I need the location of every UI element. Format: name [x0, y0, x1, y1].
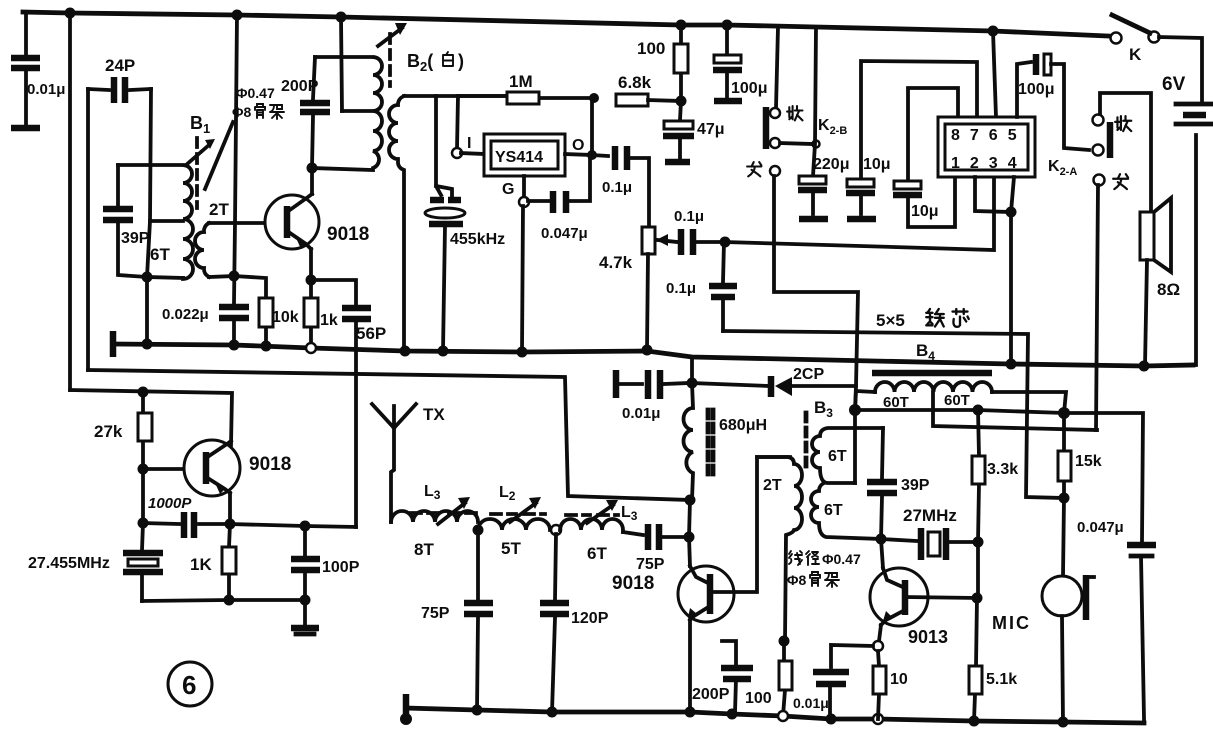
capacitor 200P PA	[692, 641, 753, 713]
svg-text:0.01μ: 0.01μ	[622, 405, 660, 422]
capacitor 100P	[291, 526, 360, 600]
capacitor 47u electrolytic	[663, 101, 725, 162]
node collector junction 9013	[972, 593, 983, 604]
node rail x522	[517, 347, 528, 358]
wire 2T top to transistor base	[209, 221, 283, 225]
wire supply line y411	[855, 410, 1143, 541]
svg-text:75P: 75P	[421, 605, 450, 622]
capacitor 39P	[103, 165, 150, 277]
wire B1 junction down to ground rail	[145, 277, 149, 344]
svg-text:I: I	[467, 135, 471, 152]
wire supply drop x237	[234, 15, 237, 303]
wire ground line tap to RF node	[690, 357, 694, 383]
wire B2 secondary to 1M and I pin	[404, 94, 507, 98]
svg-text:15k: 15k	[1075, 453, 1102, 470]
node crystal right junction	[973, 537, 984, 548]
svg-text:680μH: 680μH	[719, 417, 767, 434]
svg-text:1000P: 1000P	[148, 495, 192, 512]
wire I pin drop	[457, 96, 458, 149]
wire emitter Q2 to 1000P line	[228, 493, 232, 524]
wire base node riser	[689, 500, 690, 566]
svg-text:0.1μ: 0.1μ	[602, 179, 632, 196]
transformer B2 primary winding	[312, 57, 382, 170]
wire rail to S765 pin6	[993, 31, 996, 117]
svg-text:4.7k: 4.7k	[599, 253, 633, 272]
switch K2-B common contact	[770, 138, 820, 148]
svg-text:9018: 9018	[327, 224, 369, 245]
label wire gauge line1	[789, 551, 861, 567]
node B3 supply junction	[849, 404, 861, 416]
battery 6V	[1159, 37, 1212, 365]
node 15k B4 junction	[1058, 407, 1070, 419]
inductor L3 6T output	[560, 500, 638, 563]
svg-text:10: 10	[890, 671, 908, 688]
svg-text:0.047μ: 0.047μ	[541, 225, 588, 242]
wire lower-left supply branch	[70, 390, 232, 445]
node rail x443	[438, 346, 449, 357]
capacitor 75P shunt	[421, 530, 493, 710]
switch K2-A transmit contact	[1094, 174, 1129, 189]
wire audio line y332 to transmitter	[723, 331, 1064, 498]
svg-text:8Ω: 8Ω	[1157, 280, 1180, 299]
svg-text:6V: 6V	[1162, 74, 1186, 95]
svg-text:Φ0.47: Φ0.47	[822, 551, 861, 567]
capacitor 0.01u emitter bypass	[793, 645, 873, 719]
label B3	[814, 398, 833, 420]
resistor 100 PA	[745, 641, 792, 716]
node 1k bottom	[224, 595, 235, 606]
ground stub below 100P	[291, 600, 319, 634]
svg-text:YS414: YS414	[495, 149, 543, 166]
capacitor 100u electrolytic top	[713, 25, 767, 101]
switch K2-A pole bar	[1107, 122, 1114, 158]
node speaker ground junction	[1139, 361, 1150, 372]
wire emitter 9013 to ring	[879, 625, 881, 641]
resistor 1k emitter Q1	[304, 280, 338, 344]
node rail ring x783	[778, 711, 788, 721]
label wire gauge line2	[787, 572, 839, 588]
svg-text:10k: 10k	[272, 309, 299, 326]
node rail ring x878	[873, 714, 883, 724]
svg-text:5×5: 5×5	[876, 311, 905, 330]
inductor 680uH choke	[684, 383, 768, 500]
wire top supply rail	[23, 12, 1108, 36]
wire S765 pin8 to 10u second	[908, 88, 958, 180]
capacitor 24P	[88, 56, 151, 103]
node 2T bottom junction	[779, 636, 790, 647]
svg-text:100μ: 100μ	[1018, 81, 1054, 98]
svg-text:27MHz: 27MHz	[903, 506, 957, 525]
svg-text:1k: 1k	[320, 312, 338, 329]
svg-text:0.01μ: 0.01μ	[27, 81, 65, 98]
inductor 2T coupling winding	[195, 200, 234, 277]
capacitor 220u electrolytic	[798, 156, 849, 219]
node crystal top junction	[138, 518, 149, 529]
node rail ring x311	[306, 343, 316, 353]
node 100P bottom	[300, 595, 311, 606]
pin O output YS414	[565, 137, 592, 155]
node base junction Q2	[138, 464, 149, 475]
wire collector column 9013	[976, 542, 980, 598]
svg-text:8765: 8765	[951, 127, 1027, 144]
wire long RF line 24P branch to PA base	[88, 370, 690, 500]
capacitor 56P	[311, 280, 386, 527]
node PA base upper junction	[685, 495, 696, 506]
svg-text:2T: 2T	[209, 200, 229, 219]
IC U2 S765 amplifier	[938, 117, 1035, 177]
transformer B2 secondary winding	[389, 96, 404, 351]
node rail x732	[727, 709, 738, 720]
node top rail junction x341	[336, 12, 347, 23]
wire base drop to crystal	[141, 469, 145, 523]
resistor 6.8k	[616, 73, 681, 106]
svg-text:60T: 60T	[944, 392, 970, 409]
node top rail junction x727	[722, 20, 733, 31]
svg-text:10μ: 10μ	[863, 156, 891, 173]
resistor 1M	[458, 72, 594, 104]
node B1 bottom junction	[142, 272, 153, 283]
terminal bottom rail left end	[400, 694, 412, 725]
svg-text:6: 6	[182, 670, 196, 700]
switch K2-B pole bar	[763, 107, 770, 149]
wire emitter Q3 to rail	[688, 620, 692, 712]
node 1M 6.8k junction	[589, 93, 599, 103]
transformer B3 secondary 6T lower	[811, 483, 881, 539]
node crystal line left junction	[876, 534, 887, 545]
node antenna RF junction	[687, 378, 698, 389]
capacitor 10u second electrolytic	[893, 177, 955, 227]
resistor 1k oscillator	[190, 524, 236, 600]
node rail x647	[642, 345, 653, 356]
microphone MIC	[992, 498, 1094, 722]
resistor 5.1k	[969, 598, 1017, 721]
transformer B4 core 5x5	[872, 309, 992, 373]
inductor 2T PA tank	[757, 457, 802, 641]
svg-text:8T: 8T	[414, 540, 434, 559]
wire left vertical x71 to lower-left oscillator	[68, 13, 72, 390]
crystal 27MHz	[881, 506, 978, 560]
node B2 200P collector junction	[307, 163, 318, 174]
node emitter junction y524	[225, 519, 236, 530]
node rail x1063	[1058, 717, 1069, 728]
svg-text:9018: 9018	[612, 573, 654, 594]
switch K2-B transmit contact	[747, 162, 780, 176]
node rail x477	[472, 705, 483, 716]
node 100 6.8k 47u junction	[676, 96, 687, 107]
node emitter ring	[873, 641, 883, 651]
pin G ground YS414	[502, 176, 529, 352]
svg-text:27k: 27k	[94, 422, 123, 441]
wire S765 pin4 to ground line	[1011, 177, 1014, 364]
svg-text:1234: 1234	[951, 155, 1027, 172]
inductor L2 5T	[478, 484, 550, 558]
diode 2CP	[692, 366, 856, 397]
svg-text:100: 100	[745, 690, 772, 707]
svg-text:9013: 9013	[908, 627, 948, 647]
svg-text:2T: 2T	[763, 477, 782, 494]
switch K2-B receive contact	[770, 27, 803, 120]
capacitor 10u first electrolytic	[846, 156, 891, 219]
node top rail junction x993	[988, 26, 999, 37]
wire collector Q1 to B2/200P node	[310, 168, 314, 194]
transformer B3 secondary 6T upper	[812, 428, 883, 483]
capacitor 0.047u transmit	[1077, 519, 1156, 723]
wire emitter Q1 down	[309, 249, 313, 280]
core B1 dashed line with arrow	[186, 138, 215, 208]
filter 455kHz ceramic	[425, 186, 505, 351]
transformer B4 winding 60T+60T	[855, 382, 1097, 430]
svg-text:6T: 6T	[828, 448, 847, 465]
wire 24P left branch x88	[86, 89, 90, 370]
node audio junction x725	[720, 237, 731, 248]
svg-text:100μ: 100μ	[731, 80, 767, 97]
svg-text:200P: 200P	[281, 78, 319, 95]
wire oscillator bottom	[142, 600, 305, 601]
svg-text:0.022μ: 0.022μ	[162, 306, 209, 323]
wire collector Q3 riser	[710, 457, 790, 592]
transformer B1 coil 6T with tap	[118, 165, 193, 279]
svg-text:6T: 6T	[587, 544, 607, 563]
inductor L3 8T	[391, 483, 478, 559]
svg-text:0.1μ: 0.1μ	[674, 208, 704, 225]
svg-text:3.3k: 3.3k	[987, 461, 1018, 478]
svg-text:56P: 56P	[356, 324, 386, 343]
node rail x552	[547, 707, 558, 718]
svg-text:Φ8: Φ8	[787, 572, 806, 588]
svg-text:0.01μ: 0.01μ	[793, 695, 829, 711]
svg-text:220μ: 220μ	[813, 156, 849, 173]
pin I input YS414	[452, 135, 484, 158]
svg-text:47μ: 47μ	[697, 121, 725, 138]
svg-text:5T: 5T	[501, 539, 521, 558]
label circled 6	[168, 662, 212, 706]
svg-text:24P: 24P	[105, 56, 135, 75]
node rail x234	[229, 340, 240, 351]
capacitor 0.01u antenna coupling	[616, 370, 688, 422]
core B3 dashed	[804, 413, 809, 473]
resistor 100	[637, 25, 688, 101]
node O pin junction	[587, 150, 597, 160]
svg-text:MIC: MIC	[992, 613, 1031, 633]
svg-text:200P: 200P	[692, 686, 730, 703]
resistor 10 emitter	[873, 651, 908, 719]
wire audio line to S765 pin3	[725, 177, 994, 250]
resistor 15k	[1058, 413, 1102, 498]
wire drop to 455kHz filter	[436, 96, 441, 195]
capacitor 0.01u top-left	[11, 13, 65, 128]
switch K power	[1111, 15, 1160, 64]
svg-text:6T: 6T	[824, 502, 843, 519]
transistor Q2 9018 crystal oscillator	[143, 440, 291, 496]
capacitor 0.1u first coupling	[592, 146, 649, 227]
svg-text:100P: 100P	[322, 559, 360, 576]
svg-text:Φ0.47: Φ0.47	[236, 85, 275, 101]
wire 24P right branch x150 to B1 tap	[147, 89, 151, 277]
node emitter junction	[306, 275, 317, 286]
svg-text:75P: 75P	[636, 556, 665, 573]
node rail x266	[261, 341, 272, 352]
capacitor 0.1u third to B4 line	[666, 242, 737, 331]
capacitor 39P tank	[867, 428, 930, 539]
switch K2-A receive contact	[1093, 93, 1152, 212]
speaker 8 ohm	[1140, 198, 1180, 366]
node 100P top junction	[300, 521, 311, 532]
svg-text:1M: 1M	[509, 72, 533, 91]
svg-text:TX: TX	[423, 405, 445, 424]
node PA base junction	[684, 532, 695, 543]
label phi0.47 phi8 leader	[205, 85, 284, 189]
node 3.3k top junction	[973, 405, 984, 416]
svg-text:9018: 9018	[249, 454, 291, 475]
transistor Q4 9013 modulator	[870, 539, 977, 647]
node L3 junction	[473, 525, 484, 536]
svg-text:K: K	[1129, 45, 1142, 64]
node rail x831	[826, 714, 837, 725]
wire K2-A transmit drop to B4 tap line	[1096, 185, 1098, 430]
resistor 10k	[234, 276, 299, 346]
svg-text:O: O	[572, 137, 584, 154]
wire B3 tap column	[853, 410, 857, 483]
wire 1000P line to 100P and 56P	[230, 524, 356, 527]
wire supply drop x342 to B2 tap	[341, 17, 342, 111]
node L2 ring junction	[551, 525, 561, 535]
svg-text:10μ: 10μ	[911, 203, 939, 220]
wire bottom rail	[406, 708, 1144, 723]
node 2T bottom junction	[229, 271, 240, 282]
svg-text:39P: 39P	[901, 477, 930, 494]
label K2-A	[1048, 158, 1077, 178]
transistor Q3 9018 PA	[612, 566, 734, 622]
node top rail junction x681	[676, 20, 687, 31]
capacitor 200P	[281, 57, 330, 168]
switch K2-A common contact	[1093, 145, 1104, 156]
svg-text:G: G	[502, 181, 514, 198]
svg-text:39P: 39P	[121, 230, 150, 247]
capacitor 0.022u	[162, 306, 249, 345]
node rail x690	[685, 707, 696, 718]
crystal 27.455MHz	[28, 523, 163, 601]
terminal ground rail left end	[110, 331, 117, 357]
capacitor 0.047u YS414	[528, 155, 590, 242]
label B2 (bai)	[407, 51, 464, 74]
capacitor 0.1u second coupling	[674, 208, 725, 255]
IC U1 YS414	[484, 134, 565, 176]
svg-text:120P: 120P	[571, 610, 609, 627]
capacitor 75P series	[623, 524, 689, 573]
node rail x974	[969, 716, 980, 727]
core B2 dashed with arrow	[378, 23, 407, 86]
wire K2-B supply drop	[813, 27, 816, 176]
svg-text:1K: 1K	[190, 555, 212, 574]
node pin4 junction	[1006, 207, 1017, 218]
wire O to 1M-6.8k junction	[590, 98, 594, 155]
node rail x405	[400, 346, 411, 357]
wire S765 pin7 to 10u	[861, 61, 977, 178]
capacitor 1000P	[143, 495, 230, 538]
svg-text:100: 100	[637, 39, 665, 58]
potentiometer 4.7k volume	[599, 227, 677, 350]
label K2-B	[818, 117, 847, 137]
node rail x147	[142, 339, 153, 350]
node mic bias junction	[1059, 493, 1070, 504]
node pin4 ground junction	[1006, 359, 1017, 370]
label B1	[190, 113, 210, 136]
wire ground bus rail	[113, 344, 1193, 366]
svg-text:6T: 6T	[150, 245, 170, 264]
svg-text:0.1μ: 0.1μ	[666, 280, 696, 297]
svg-text:0.047μ: 0.047μ	[1077, 519, 1124, 536]
capacitor 120P	[540, 534, 609, 712]
node top rail junction x70	[65, 8, 76, 19]
antenna TX	[372, 404, 445, 522]
node 27k top junction	[138, 387, 149, 398]
node top rail junction x237	[232, 10, 243, 21]
transistor Q1 9018 RX oscillator	[265, 194, 369, 249]
svg-text:6.8k: 6.8k	[618, 73, 652, 92]
resistor 27k	[94, 392, 152, 469]
svg-text:27.455MHz: 27.455MHz	[28, 555, 110, 572]
wire K2-B transmit to B3 node	[774, 176, 858, 410]
svg-text:5.1k: 5.1k	[986, 671, 1017, 688]
resistor 3.3k	[972, 410, 1018, 542]
capacitor 100u to K2-A	[1017, 54, 1089, 150]
wire S765 pin2 to pin4 node	[975, 177, 1011, 212]
svg-text:): )	[458, 51, 464, 71]
svg-text:455kHz: 455kHz	[450, 231, 505, 248]
svg-text:2CP: 2CP	[793, 366, 824, 383]
